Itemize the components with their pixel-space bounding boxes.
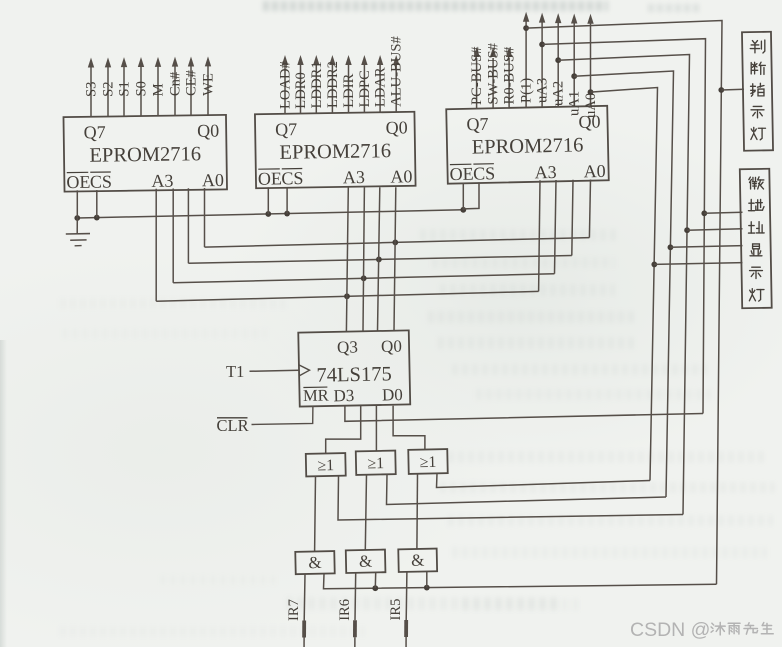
junction A2 bus to 74LS175: [361, 275, 367, 281]
arrowhead LDPC: [361, 55, 367, 65]
watermark hanzi 4: [761, 623, 773, 634]
wire U1 output pin S2: [107, 66, 109, 116]
arrowhead uA3: [539, 13, 545, 23]
junction U1 OE: [74, 215, 80, 221]
watermark hanzi 1: [711, 622, 725, 634]
IR6 tail: [354, 637, 356, 647]
IR5 tail: [405, 637, 407, 647]
svg-text:≥1: ≥1: [419, 454, 436, 471]
wire net uA3 down right side: [542, 39, 705, 414]
hanzi judge-indicator char 3: [751, 83, 764, 96]
svg-text:CS: CS: [90, 171, 112, 191]
wire stub uA2 to micro-address display: [687, 229, 742, 230]
wire U2 output pin LDAR: [379, 64, 381, 112]
ground bar 1: [66, 233, 90, 235]
arrowhead S1: [121, 57, 127, 67]
AND gate G6: [398, 549, 437, 572]
wire U3 output pin P(1): [525, 21, 527, 108]
wire U2 CS pin down: [286, 187, 288, 214]
svg-text:A3: A3: [151, 171, 173, 191]
wire U3 output pin uA3: [541, 22, 543, 108]
wire U1 output pin S1: [123, 66, 125, 116]
svg-text:74LS175: 74LS175: [316, 363, 392, 387]
wire U3 output pin uA0: [590, 23, 592, 107]
svg-text:Q0: Q0: [197, 120, 219, 140]
wire U2 output pin LDDR2: [331, 64, 333, 113]
svg-text:LDDR1: LDDR1: [309, 61, 325, 108]
wire G3 input from uA0: [437, 474, 651, 488]
wire U1 OE pin down: [76, 190, 78, 218]
arrowhead S0: [138, 57, 144, 67]
EPROM2716 chip U3 (right control store): [446, 106, 609, 184]
arrowhead R0-BUS#: [506, 47, 512, 57]
wire U3 A1 pin up: [572, 180, 573, 256]
svg-text:LDIR: LDIR: [341, 73, 357, 107]
junction on uA3: [539, 42, 545, 48]
IR7 heavy stub: [302, 621, 306, 638]
arrowhead P(1): [523, 12, 529, 22]
IR5 heavy stub: [404, 620, 408, 637]
junction node uA2 display stub: [684, 227, 690, 233]
wire D1 from OR gate G2: [375, 406, 377, 451]
arrowhead ALU-BUS#: [393, 55, 399, 65]
svg-text:S0: S0: [134, 81, 150, 96]
svg-text:WE: WE: [201, 73, 217, 96]
EPROM2716 chip U1 (left control store): [63, 115, 227, 192]
svg-text:&: &: [308, 553, 322, 572]
wire U2 output pin LDIR: [348, 64, 350, 113]
ground bar 3: [75, 245, 82, 247]
svg-text:&: &: [411, 551, 425, 570]
ground bar 2: [70, 239, 86, 241]
svg-text:≥1: ≥1: [317, 457, 334, 474]
wire U3 A2 pin up: [555, 180, 557, 274]
svg-text:P(1): P(1): [519, 78, 535, 103]
junction on P(1): [523, 25, 529, 31]
wire net uA0 down right side: [591, 88, 658, 481]
wire G3 to AND gate G6: [416, 474, 419, 550]
junction P(1) at G6: [424, 585, 430, 591]
OR gate G2: [356, 451, 396, 475]
hanzi micro-address char 4: [750, 244, 762, 256]
svg-text:A3: A3: [343, 167, 365, 187]
wire U2 output pin LDDR1: [315, 64, 317, 113]
register U4 74LS175: [298, 330, 410, 406]
svg-text:&: &: [359, 552, 373, 571]
arrowhead uA0: [587, 14, 593, 24]
wire stub uA3 to micro-address display: [704, 212, 742, 213]
watermark hanzi 3: [744, 623, 758, 634]
wire G1 to AND gate G4: [314, 476, 317, 552]
bus line A2: [173, 274, 554, 283]
svg-text:IR6: IR6: [337, 599, 353, 621]
wire T1 clock input: [250, 370, 299, 371]
wire net P(1) to indicator and AND gates: [526, 21, 722, 585]
wire net uA2 down right side: [558, 55, 689, 515]
svg-text:OE: OE: [66, 172, 90, 192]
wire stub uA0 to micro-address display: [654, 263, 742, 265]
svg-text:Q7: Q7: [84, 122, 106, 142]
wire G1 input from uA2: [338, 476, 683, 520]
wire U3 A3 pin up: [539, 180, 540, 291]
junction on uA2: [555, 57, 561, 63]
wire IR6 input: [354, 573, 357, 621]
hanzi judge-indicator char 4: [751, 106, 764, 117]
junction on uA1: [571, 73, 577, 79]
wire U1 output pin Cn#: [174, 66, 176, 115]
arrowhead LDIR: [345, 55, 351, 65]
wire U3 output pin R0-BUS#: [508, 58, 510, 108]
wire U2 address pin to 74LS175 Q3/A3: [346, 187, 348, 331]
wire P(1) strobe to AND gates: [324, 574, 717, 589]
svg-text:EPROM2716: EPROM2716: [279, 140, 391, 164]
wire U1 A1 pin down: [187, 188, 189, 263]
IR7 tail: [303, 638, 305, 647]
arrowhead LDAR: [377, 55, 383, 65]
svg-text:R0-BUS#: R0-BUS#: [502, 46, 518, 104]
wire net uA1 down right side: [574, 71, 673, 497]
svg-text:D3: D3: [333, 386, 354, 405]
junction node uA3 display stub: [701, 210, 707, 216]
svg-text:≥1: ≥1: [367, 455, 384, 472]
svg-text:IR7: IR7: [286, 599, 302, 621]
EPROM2716 chip U2 (middle control store): [255, 112, 416, 189]
arrowhead WE: [205, 56, 211, 66]
wire OE/CS enable bus: [77, 210, 463, 218]
wire CLR to MR pin: [252, 406, 313, 425]
wire U3 OE pin down: [462, 183, 464, 211]
svg-text:Q7: Q7: [466, 114, 488, 134]
svg-text:CS: CS: [281, 168, 303, 188]
wire U2 OE pin down: [267, 187, 269, 214]
wire U2 output pin LOAD#: [284, 64, 286, 114]
svg-text:LDAR: LDAR: [373, 67, 389, 107]
wire G5 strobe input: [374, 573, 376, 588]
AND gate G4: [295, 551, 334, 574]
svg-text:OE: OE: [449, 164, 473, 184]
wire U3 CS pin elbow: [464, 182, 479, 209]
OR gate G1: [306, 453, 346, 476]
junction node uA0 display stub: [651, 262, 657, 268]
wire U2 output pin LDPC: [363, 64, 365, 112]
arrowhead M: [155, 57, 161, 67]
svg-text:uA0: uA0: [583, 93, 599, 118]
wire IR7 input: [303, 574, 306, 621]
wire U1 CS pin down: [96, 190, 98, 218]
indicator box: judge indicator lamp: [742, 32, 773, 151]
svg-text:Cn#: Cn#: [168, 71, 184, 96]
wire U3 A0 pin up: [589, 179, 590, 237]
svg-text:A0: A0: [202, 170, 224, 190]
junction on uA0: [588, 89, 594, 95]
watermark hanzi 2: [728, 623, 740, 634]
svg-text:S2: S2: [101, 81, 117, 96]
wire U1 A0 pin down: [204, 188, 206, 247]
svg-text:A0: A0: [583, 161, 605, 181]
svg-text:ALU-BUS#: ALU-BUS#: [389, 36, 405, 107]
junction A0 bus to 74LS175: [392, 239, 398, 245]
bus line A0: [205, 238, 590, 248]
OR gate G3: [408, 449, 447, 474]
svg-text:CS: CS: [473, 163, 495, 183]
svg-text:S1: S1: [117, 81, 133, 96]
arrowhead LDDR2: [329, 55, 335, 65]
svg-text:T1: T1: [226, 362, 244, 381]
wire IR5 input: [405, 572, 408, 620]
bus line A3: [156, 291, 538, 301]
wire U1 output pin M: [157, 66, 159, 116]
hanzi micro-address char 3: [749, 222, 765, 233]
svg-text:MR: MR: [303, 386, 329, 406]
svg-text:LOAD#: LOAD#: [278, 60, 294, 109]
wire U2 address pin to 74LS175 Q1/A1: [378, 187, 380, 331]
hanzi micro-address char 1: [749, 177, 764, 189]
wire G2 input from uA1: [387, 475, 667, 505]
junction U1 CS: [94, 215, 100, 221]
arrowhead LDDR1: [313, 55, 319, 65]
wire U3 output pin uA2: [557, 22, 559, 107]
wire U1 A2 pin down: [172, 188, 174, 282]
wire D2 from OR gate G1: [326, 406, 361, 454]
hanzi micro-address char 6: [749, 289, 764, 301]
wire U1 output pin CE#: [190, 66, 192, 115]
svg-text:CLR: CLR: [217, 416, 249, 435]
wire U2 address pin to 74LS175 Q0/A0: [394, 187, 396, 331]
wire G6 strobe input: [426, 572, 428, 588]
svg-text:uA3: uA3: [535, 78, 551, 103]
wire U1 output pin WE: [207, 66, 209, 115]
wire U2 output pin LDR0: [300, 64, 302, 113]
svg-text:S3: S3: [84, 82, 100, 97]
svg-text:Q0: Q0: [381, 337, 402, 356]
wire U1 output pin S0: [140, 66, 142, 116]
svg-text:Q7: Q7: [275, 119, 297, 139]
svg-text:uA2: uA2: [551, 81, 567, 106]
svg-text:EPROM2716: EPROM2716: [89, 143, 201, 167]
svg-text:CSDN @: CSDN @: [630, 619, 710, 641]
svg-text:A0: A0: [390, 166, 412, 186]
svg-text:Q0: Q0: [385, 117, 407, 137]
junction U3 OE: [460, 207, 466, 213]
junction A1 bus to 74LS175: [376, 257, 382, 263]
arrowhead LDR0: [297, 55, 303, 65]
wire U1 A3 pin down: [155, 189, 157, 301]
svg-text:OE: OE: [258, 168, 282, 188]
arrowhead CE#: [188, 57, 194, 67]
hanzi micro-address char 5: [750, 267, 763, 278]
arrowhead Cn#: [172, 57, 178, 67]
junction A3 bus to 74LS175: [344, 293, 350, 299]
wire U2 output pin ALU-BUS#: [395, 64, 397, 112]
svg-text:uA1: uA1: [567, 91, 583, 116]
svg-text:LDDR2: LDDR2: [325, 61, 341, 108]
arrowhead SW-BUS#: [490, 47, 496, 57]
hanzi judge-indicator char 5: [751, 127, 766, 139]
hanzi micro-address char 2: [749, 199, 764, 210]
svg-text:LDR0: LDR0: [293, 72, 309, 108]
bus line A1: [188, 256, 571, 264]
arrowhead uA2: [555, 13, 561, 23]
wire G2 to AND gate G5: [365, 475, 366, 551]
svg-text:PC-BUS#: PC-BUS#: [469, 46, 485, 105]
wire stub P(1) to judge-indicator box: [721, 88, 744, 91]
junction node uA1 display stub: [668, 244, 674, 250]
junction P(1) at G5: [372, 585, 378, 591]
ground stem: [76, 218, 78, 234]
svg-text:CE#: CE#: [184, 69, 200, 96]
wire U1 output pin S3: [90, 66, 92, 117]
hanzi judge-indicator char 2: [751, 62, 765, 74]
wire U3 output pin PC-BUS#: [476, 58, 478, 109]
svg-text:SW-BUS#: SW-BUS#: [486, 42, 502, 104]
wire U3 output pin SW-BUS#: [492, 58, 494, 108]
junction U2 CS: [284, 211, 290, 217]
svg-text:LDPC: LDPC: [357, 70, 373, 107]
wire U3 output pin uA1: [573, 23, 575, 107]
AND gate G5: [346, 550, 386, 573]
svg-text:Q3: Q3: [337, 337, 358, 356]
arrowhead S2: [105, 57, 111, 67]
wire U2 address pin to 74LS175 Q2/A2: [363, 187, 364, 331]
svg-text:D0: D0: [382, 385, 403, 404]
arrowhead S3: [88, 58, 94, 68]
svg-text:IR5: IR5: [388, 599, 404, 621]
svg-text:M: M: [151, 83, 167, 96]
junction U2 OE: [265, 211, 271, 217]
arrowhead uA1: [571, 14, 577, 24]
hanzi judge-indicator char 1: [750, 40, 765, 53]
arrowhead LOAD#: [282, 55, 288, 65]
wire D0 from OR gate G3: [393, 406, 425, 450]
indicator box: micro-address display lamp: [740, 169, 772, 308]
arrowhead PC-BUS#: [473, 47, 479, 57]
IR6 heavy stub: [353, 620, 357, 637]
svg-text:A3: A3: [534, 162, 556, 182]
wire stub uA1 to micro-address display: [670, 246, 742, 248]
wire D3 from uA3: [345, 406, 703, 422]
svg-text:EPROM2716: EPROM2716: [471, 134, 583, 158]
junction node P(1) at indicator stub: [718, 87, 724, 93]
